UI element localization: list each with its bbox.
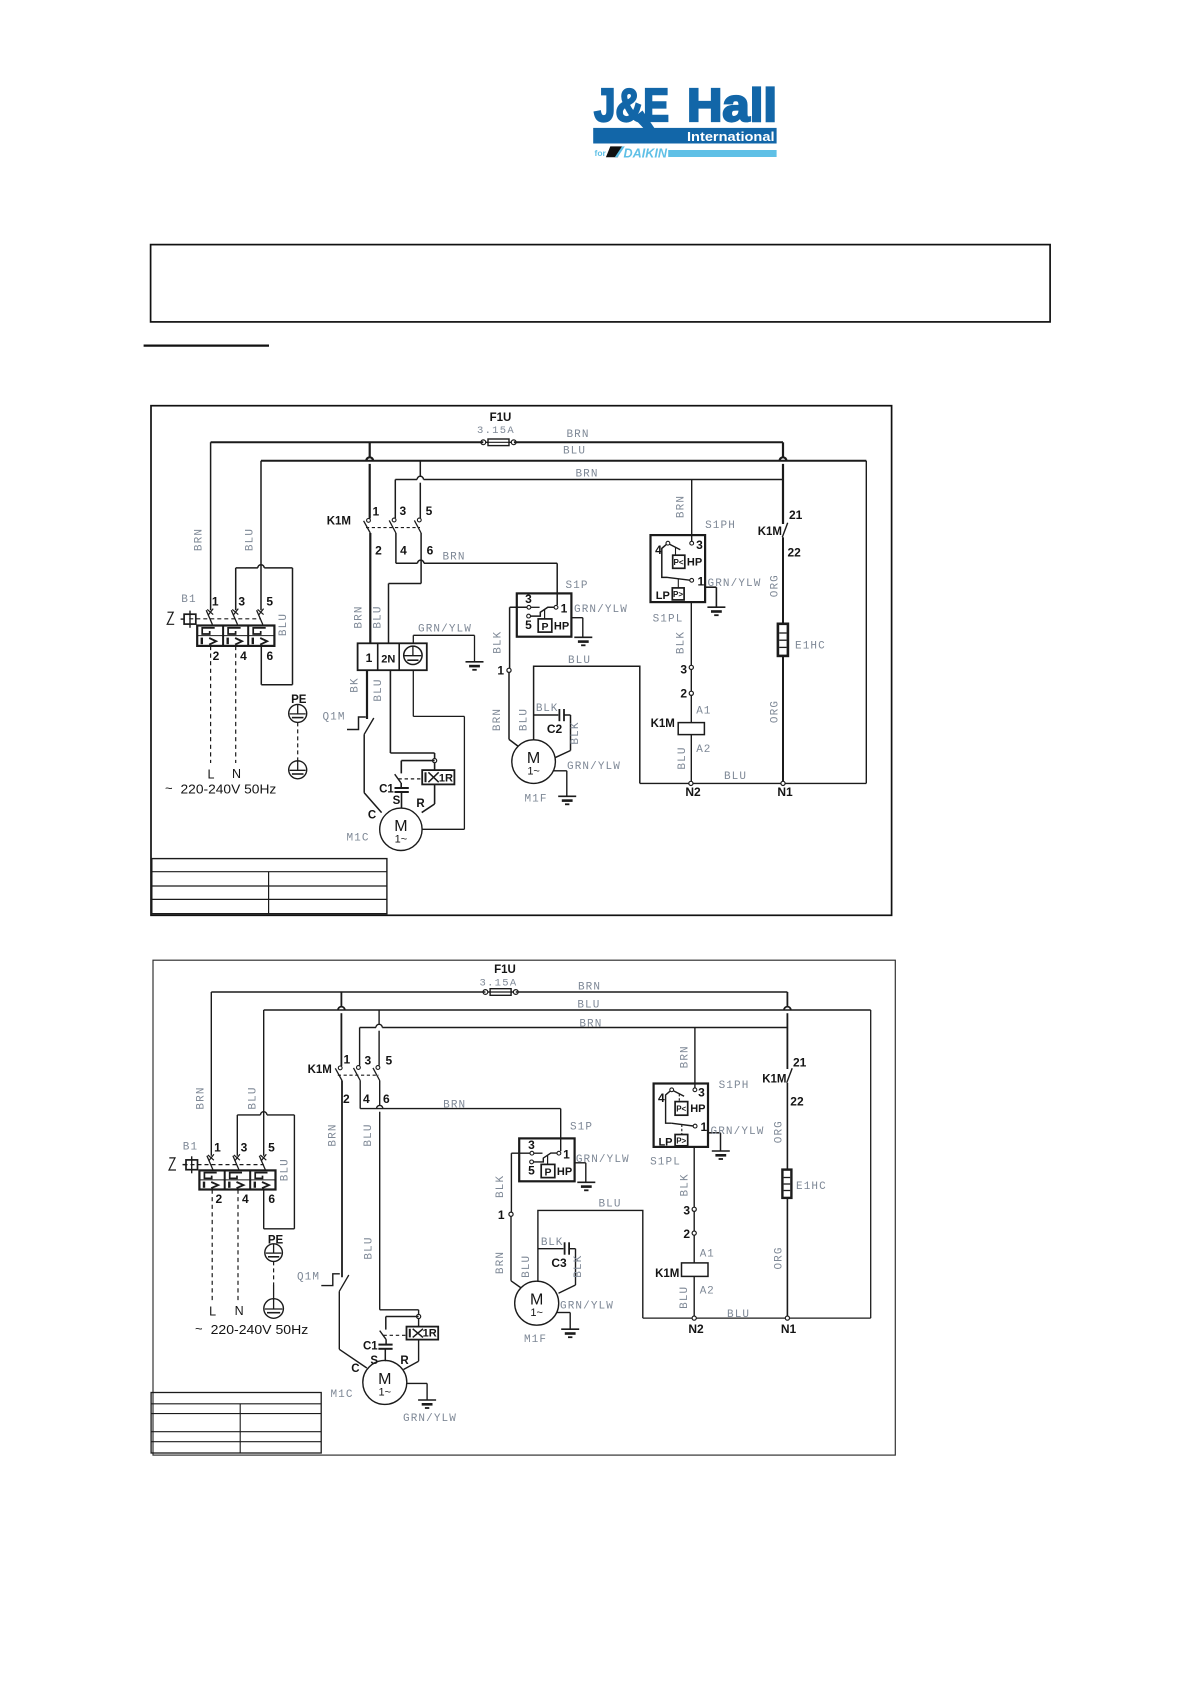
svg-text:2: 2 [680, 687, 687, 701]
svg-text:1: 1 [497, 663, 504, 677]
svg-text:BLU: BLU [248, 1086, 260, 1109]
wire M1C frame to PE terminal [412, 670, 414, 716]
svg-text:S1PL: S1PL [650, 1157, 681, 1169]
svg-text:6: 6 [383, 1092, 390, 1106]
svg-text:L: L [208, 768, 215, 782]
pressure switch S1P (2) [519, 1138, 574, 1181]
svg-text:BLK: BLK [541, 1237, 563, 1249]
svg-text:3: 3 [696, 538, 703, 552]
wire B1 pole3 loop (2) [237, 1114, 260, 1116]
svg-text:N2: N2 [685, 785, 701, 799]
node N1 (2) [785, 1316, 789, 1320]
svg-text:1: 1 [366, 651, 373, 665]
heading underline [144, 345, 269, 347]
svg-text:International: International [687, 129, 775, 144]
earth electrode symbol (2) [264, 1299, 284, 1319]
svg-text:F1U: F1U [490, 412, 512, 424]
svg-text:1R: 1R [423, 1328, 437, 1340]
svg-text:BRN: BRN [194, 528, 206, 551]
wire S1PH to earth (2) [708, 1132, 721, 1134]
capacitor C3 branch [538, 1248, 564, 1250]
svg-text:F1U: F1U [494, 964, 516, 976]
svg-text:GRN/YLW: GRN/YLW [418, 624, 472, 636]
wire K1M-4 to BRN run [395, 533, 397, 563]
wire BLU bus (2) [264, 1009, 871, 1011]
capacitor C1 [395, 787, 409, 789]
wire BRN to S1PH (2) [694, 1028, 696, 1088]
wire neutral N2-N1 run (2) [643, 1317, 871, 1319]
svg-text:K1M: K1M [655, 1268, 679, 1280]
svg-text:BRN: BRN [575, 468, 598, 480]
svg-text:220-240V 50Hz: 220-240V 50Hz [181, 782, 277, 796]
svg-text:C1: C1 [363, 1341, 378, 1353]
svg-text:4: 4 [240, 649, 247, 663]
wire BLK S1PL drop to coil (2) [693, 1147, 695, 1318]
svg-text:5: 5 [266, 595, 273, 609]
svg-text:BRN: BRN [443, 1099, 466, 1111]
pressure switch S1P [517, 593, 572, 636]
wire right BLU return [865, 461, 867, 784]
wire L dashed [210, 646, 212, 763]
wire S1P to earth [571, 617, 582, 619]
svg-text:HP: HP [690, 1103, 705, 1115]
wire BRN to S1PH [691, 480, 693, 542]
contactor K1M main contacts [369, 442, 371, 457]
fuse F1U [481, 440, 486, 445]
motor M1F fan (2) [515, 1281, 559, 1325]
svg-text:3: 3 [683, 1203, 690, 1217]
svg-text:M: M [394, 818, 407, 835]
svg-text:BLU: BLU [245, 528, 257, 551]
motor M1C compressor (2) [363, 1360, 407, 1404]
capacitor C1 (2) [378, 1344, 392, 1346]
earth electrode symbol [289, 761, 307, 779]
ground symbol (S1P) [574, 636, 592, 638]
wire BLK S1P-3 drop (2) [510, 1153, 512, 1212]
diagram 1 border frame [151, 406, 892, 916]
svg-text:C: C [351, 1363, 359, 1375]
svg-text:21: 21 [793, 1056, 807, 1070]
svg-text:BRN: BRN [680, 1045, 692, 1068]
svg-text:6: 6 [267, 649, 274, 663]
wire neutral N2-N1 run [640, 782, 867, 784]
wire Q1M to motor C terminal [363, 734, 365, 793]
svg-text:BRN: BRN [492, 708, 504, 731]
svg-text:B1: B1 [181, 594, 196, 606]
svg-text:3: 3 [364, 1054, 371, 1068]
svg-text:C2: C2 [547, 722, 563, 736]
svg-text:LP: LP [656, 590, 670, 602]
svg-text:~: ~ [195, 1321, 203, 1336]
ground symbol (M1C) [418, 1399, 436, 1401]
svg-text:L: L [209, 1305, 216, 1319]
svg-text:BLK: BLK [570, 721, 582, 744]
wire M1F earth [553, 770, 567, 772]
svg-text:N: N [232, 767, 241, 781]
svg-text:S1P: S1P [570, 1122, 593, 1134]
svg-text:3: 3 [241, 1141, 248, 1155]
wire BRN bus to S1PH (2) [360, 1027, 376, 1029]
svg-text:1~: 1~ [395, 833, 408, 845]
svg-text:M1F: M1F [524, 1334, 547, 1346]
svg-text:C3: C3 [551, 1256, 567, 1270]
svg-text:GRN/YLW: GRN/YLW [576, 1154, 630, 1166]
contactor K1M main contacts (2) [340, 992, 342, 1007]
svg-text:5: 5 [525, 618, 532, 632]
svg-text:P>: P> [676, 1137, 686, 1146]
wire K1R to motor R terminal [434, 784, 436, 804]
wire BLU fan neutral loop (2) [538, 1210, 643, 1318]
svg-text:BLU: BLU [577, 1000, 600, 1012]
wire BRN run to S1P [396, 562, 418, 564]
start contact (2) [380, 1331, 386, 1340]
svg-text:BRN: BRN [676, 495, 688, 518]
svg-text:K1M: K1M [758, 526, 782, 538]
wire K1M-6 BLU drop (2) [379, 1081, 381, 1106]
svg-text:~: ~ [165, 781, 173, 796]
svg-text:6: 6 [427, 544, 434, 558]
wire N dashed [235, 646, 237, 763]
pressure switch S1PH/S1PL dual [651, 535, 706, 602]
svg-text:N: N [235, 1304, 244, 1318]
wire BLU fan neutral loop [534, 666, 640, 783]
wire BLU to start node (2) [380, 1309, 419, 1311]
diagram 2 border frame [153, 960, 895, 1455]
fuse F1U (2) [483, 990, 488, 995]
terminal block X1 1-2N-PE [358, 643, 427, 670]
svg-text:3: 3 [698, 1086, 705, 1100]
svg-text:GRN/YLW: GRN/YLW [574, 604, 628, 616]
svg-text:BLK: BLK [676, 631, 688, 654]
node N2 (2) [692, 1316, 696, 1320]
svg-text:1: 1 [343, 1053, 350, 1067]
svg-text:BLU: BLU [727, 1309, 750, 1321]
svg-text:BRN: BRN [495, 1251, 507, 1274]
svg-text:BLK: BLK [536, 703, 558, 715]
contactor coil K1M [678, 723, 704, 735]
wire N dashed (2) [237, 1190, 239, 1303]
svg-text:K1M: K1M [762, 1074, 786, 1086]
wire GRN/YLW from PE terminal to earth [412, 635, 414, 643]
node 2 (2) [692, 1231, 696, 1235]
svg-text:ORG: ORG [770, 574, 782, 597]
svg-text:GRN/YLW: GRN/YLW [708, 578, 762, 590]
svg-text:S1PH: S1PH [719, 1080, 750, 1092]
svg-text:1: 1 [498, 1208, 505, 1222]
svg-text:BLK: BLK [495, 1175, 507, 1198]
svg-text:ORG: ORG [773, 1246, 785, 1269]
wire node to K1R [434, 763, 436, 770]
svg-text:S1PL: S1PL [653, 614, 684, 626]
breaker trip coil box (2) [186, 1160, 198, 1170]
wire S1P to earth (2) [575, 1162, 586, 1164]
ground symbol (S1PH 2) [712, 1150, 730, 1152]
svg-text:6: 6 [268, 1192, 275, 1206]
svg-text:N1: N1 [781, 1322, 797, 1336]
wire K1M-2 BRN drop to Q1M (2) [341, 1081, 343, 1278]
svg-text:BLU: BLU [279, 1158, 291, 1181]
svg-text:S: S [393, 795, 401, 807]
breaker B1 body [197, 626, 274, 646]
svg-text:N2: N2 [688, 1322, 704, 1336]
svg-text:3: 3 [525, 592, 532, 606]
svg-text:R: R [416, 798, 425, 810]
svg-text:GRN/YLW: GRN/YLW [560, 1301, 614, 1313]
svg-text:BLU: BLU [519, 708, 531, 731]
wire right BLU return (2) [870, 1010, 872, 1318]
svg-text:1: 1 [214, 1141, 221, 1155]
wire node branch to start contact [401, 760, 434, 762]
svg-text:BRN: BRN [578, 981, 601, 993]
wire left BRN drop (2) [210, 992, 212, 1156]
svg-text:220-240V 50Hz: 220-240V 50Hz [211, 1323, 309, 1337]
svg-text:BLU: BLU [521, 1255, 533, 1278]
wire left BLU drop [260, 461, 262, 611]
capacitor C2 branch [534, 714, 559, 716]
svg-text:BK: BK [350, 677, 362, 692]
svg-text:BLU: BLU [568, 655, 591, 667]
svg-text:3.15A: 3.15A [477, 425, 515, 437]
svg-text:J&E: J&E [594, 79, 669, 131]
wire K1M aux drop 21-22 (2) [786, 992, 788, 1007]
svg-text:P: P [541, 621, 548, 633]
node 2 [689, 691, 693, 695]
ground symbol (M1F 2) [561, 1328, 579, 1330]
breaker trip coil box [184, 614, 196, 624]
svg-text:S1PH: S1PH [705, 520, 736, 532]
svg-text:BRN: BRN [442, 552, 465, 564]
wire M1C earth (2) [407, 1382, 428, 1384]
relay K1R (2) [407, 1327, 439, 1340]
start contact (relay K1R contact) [395, 774, 401, 783]
svg-text:A1: A1 [696, 706, 711, 718]
logo light blue bar [668, 150, 776, 157]
svg-text:C: C [368, 810, 376, 822]
svg-text:22: 22 [790, 1095, 804, 1109]
svg-text:K1M: K1M [327, 516, 351, 528]
svg-text:P<: P< [673, 558, 683, 567]
svg-text:3: 3 [528, 1138, 535, 1152]
svg-text:BRN: BRN [196, 1086, 208, 1109]
svg-text:1~: 1~ [527, 766, 540, 778]
wire ORG to N1 [782, 656, 784, 784]
svg-text:K1M: K1M [308, 1064, 332, 1076]
motor M1C compressor [380, 808, 422, 850]
svg-text:B1: B1 [183, 1142, 198, 1154]
svg-text:BLU: BLU [677, 746, 689, 769]
wire node to K1R (2) [418, 1319, 420, 1327]
svg-text:1: 1 [372, 505, 379, 519]
wire Q1M to motor C terminal (2) [338, 1291, 340, 1349]
svg-text:HP: HP [687, 557, 702, 569]
wire M1F earth (2) [556, 1312, 570, 1314]
motor M1F fan [512, 740, 556, 784]
svg-text:BLK: BLK [493, 631, 505, 654]
svg-text:A2: A2 [700, 1286, 715, 1298]
svg-text:A1: A1 [700, 1249, 715, 1261]
svg-text:BRN: BRN [354, 605, 366, 628]
crankcase heater E1HC (2) [782, 1170, 791, 1198]
S1PH lower LP contact [662, 545, 668, 578]
crankcase heater E1HC [778, 624, 788, 656]
svg-text:GRN/YLW: GRN/YLW [403, 1413, 457, 1425]
svg-text:M1C: M1C [330, 1389, 353, 1401]
wire B1 pole3 loop [236, 567, 258, 569]
wire BRN to fan M1F [508, 672, 510, 739]
svg-text:HP: HP [554, 621, 569, 633]
logo International bar [593, 128, 776, 144]
svg-text:BRN: BRN [566, 429, 589, 441]
svg-text:21: 21 [789, 508, 803, 522]
svg-text:R: R [400, 1355, 409, 1367]
wire left BLU drop (2) [263, 1010, 265, 1156]
wire BK drop to Q1M [366, 670, 368, 719]
svg-text:BLU: BLU [363, 1123, 375, 1146]
svg-text:4: 4 [242, 1192, 249, 1206]
svg-text:BRN: BRN [328, 1123, 340, 1146]
svg-text:Hall: Hall [687, 79, 777, 131]
svg-text:P<: P< [676, 1105, 686, 1114]
node 3 [689, 665, 693, 669]
svg-text:M: M [527, 750, 540, 767]
wire BLK S1P-3 drop [509, 607, 511, 668]
svg-text:5: 5 [426, 504, 433, 518]
svg-text:BLU: BLU [364, 1236, 376, 1259]
svg-text:GRN/YLW: GRN/YLW [567, 761, 621, 773]
wire ORG to N1 (2) [786, 1198, 788, 1318]
node terminal 1 (fan feed) [507, 668, 511, 672]
wire node branch to start contact (2) [386, 1316, 419, 1318]
svg-text:3: 3 [680, 663, 687, 677]
svg-text:for: for [595, 148, 607, 158]
node terminal 1 (2) [509, 1212, 513, 1216]
svg-text:2: 2 [375, 544, 382, 558]
svg-text:BLU: BLU [679, 1286, 691, 1309]
svg-text:GRN/YLW: GRN/YLW [711, 1126, 765, 1138]
svg-text:K1M: K1M [651, 718, 675, 730]
svg-text:BLK: BLK [679, 1173, 691, 1196]
node start-circuit junction [433, 759, 437, 763]
node N2 [689, 781, 693, 785]
breaker linkage dashed (2) [184, 1164, 264, 1166]
svg-text:2: 2 [216, 1192, 223, 1206]
wire K1R to motor R (2) [418, 1340, 420, 1362]
ground symbol (terminal PE) [466, 661, 484, 663]
S1PH lower LP contact (2) [666, 1091, 672, 1123]
svg-text:P>: P> [673, 590, 683, 599]
breaker linkage dashed [189, 618, 261, 620]
wire S1PH to earth [705, 586, 717, 588]
svg-text:Q1M: Q1M [297, 1272, 320, 1284]
svg-text:1: 1 [563, 1148, 570, 1162]
svg-text:E1HC: E1HC [796, 1181, 827, 1193]
empty header box [151, 245, 1051, 322]
svg-text:4: 4 [658, 1091, 665, 1105]
svg-text:P: P [544, 1167, 551, 1179]
svg-text:S1P: S1P [565, 580, 588, 592]
node N1 [781, 781, 785, 785]
svg-text:1: 1 [698, 574, 705, 588]
wire BRN run to S1P (2) [360, 1108, 561, 1110]
svg-text:3.15A: 3.15A [479, 977, 517, 989]
wire BLK S1PL drop to coil [690, 602, 692, 783]
title block table 1 [152, 859, 387, 914]
svg-text:M1C: M1C [346, 833, 369, 845]
svg-text:BLU: BLU [724, 771, 747, 783]
svg-text:2: 2 [683, 1227, 690, 1241]
wire L dashed (2) [211, 1190, 213, 1303]
svg-text:22: 22 [788, 546, 802, 560]
svg-text:N1: N1 [777, 785, 793, 799]
svg-text:5: 5 [385, 1054, 392, 1068]
breaker handle [167, 612, 174, 624]
node 3 (2) [692, 1207, 696, 1211]
node start-circuit junction (2) [417, 1314, 421, 1318]
svg-text:E1HC: E1HC [795, 641, 826, 653]
logo swoosh diagonal [634, 111, 655, 129]
wire K1M aux drop 21-22 [782, 442, 784, 457]
svg-text:1~: 1~ [379, 1386, 392, 1398]
wire top BRN bus [211, 441, 484, 443]
svg-text:A2: A2 [696, 744, 711, 756]
wire BLU bus [261, 460, 866, 462]
ground symbol (S1P 2) [577, 1181, 595, 1183]
svg-text:5: 5 [528, 1164, 535, 1178]
svg-text:3: 3 [400, 504, 407, 518]
svg-text:1R: 1R [439, 772, 453, 784]
svg-text:1: 1 [212, 595, 219, 609]
svg-text:ORG: ORG [770, 700, 782, 723]
svg-text:BLU: BLU [373, 605, 385, 628]
breaker B1 body (2) [199, 1170, 275, 1189]
svg-text:1: 1 [701, 1120, 708, 1134]
svg-text:2: 2 [213, 649, 220, 663]
wire left BRN drop [210, 442, 212, 610]
svg-text:M: M [530, 1292, 543, 1309]
svg-text:ORG: ORG [773, 1120, 785, 1143]
svg-text:M1F: M1F [524, 794, 547, 806]
ground symbol (M1F) [558, 795, 576, 797]
wire top BRN bus (2) [211, 991, 485, 993]
wire BRN to fan M1F (2) [510, 1216, 512, 1281]
svg-text:BRN: BRN [579, 1018, 602, 1030]
svg-text:BLU: BLU [278, 613, 290, 636]
svg-text:2N: 2N [381, 654, 395, 666]
svg-text:HP: HP [557, 1166, 572, 1178]
svg-text:5: 5 [268, 1141, 275, 1155]
svg-text:BLU: BLU [598, 1199, 621, 1211]
svg-text:2: 2 [343, 1092, 350, 1106]
svg-text:Q1M: Q1M [322, 712, 345, 724]
ground symbol (S1PH) [707, 606, 725, 608]
svg-text:1: 1 [561, 602, 568, 616]
svg-text:C1: C1 [379, 784, 394, 796]
svg-text:LP: LP [658, 1136, 672, 1148]
svg-text:4: 4 [363, 1092, 370, 1106]
wire BLU drop to start relay node [389, 670, 391, 753]
svg-text:BLU: BLU [563, 446, 586, 458]
breaker handle (2) [169, 1158, 176, 1170]
protector Q1M [347, 717, 366, 730]
pressure switch S1PH/S1PL dual (2) [654, 1084, 708, 1147]
svg-text:BLU: BLU [373, 678, 385, 701]
svg-text:DAIKIN: DAIKIN [624, 145, 668, 160]
wire K1M-2 BRN to terminal 1 [369, 533, 371, 643]
relay K1R [422, 770, 454, 784]
wire BRN bus to S1PH [395, 479, 417, 481]
wire K1M-4 to BRN run (2) [359, 1081, 361, 1109]
contactor coil K1M (2) [682, 1263, 709, 1277]
